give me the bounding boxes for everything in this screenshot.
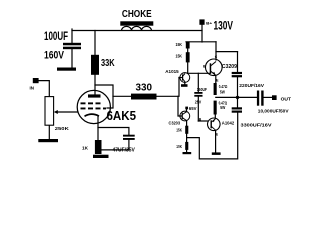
terminal B+ square bbox=[199, 19, 204, 24]
wire step to cap column bbox=[216, 51, 238, 53]
svg-text:5W: 5W bbox=[220, 105, 226, 110]
wire 047b to A1042 emitter bbox=[214, 115, 216, 119]
wire top bias bar bbox=[186, 41, 216, 43]
wire 15K-10K junction bbox=[186, 134, 188, 142]
ground below pot bbox=[38, 139, 58, 142]
resistor 1K cathode bbox=[95, 140, 102, 154]
wire pot to ground bbox=[48, 125, 50, 139]
wire 33K column bbox=[94, 31, 96, 95]
wire plate to 330 bbox=[113, 95, 131, 97]
wire A1015 bottom lead bbox=[184, 82, 186, 84]
svg-text:6AK5: 6AK5 bbox=[107, 108, 137, 123]
svg-text:3300UF/16V: 3300UF/16V bbox=[241, 123, 273, 129]
terminal IN square bbox=[33, 78, 39, 83]
potentiometer 250K body bbox=[45, 97, 54, 126]
wire 150UF column bottom bbox=[197, 97, 199, 121]
ground below 100UF bbox=[57, 68, 76, 71]
wire pot wiper bbox=[57, 111, 78, 113]
svg-text:CHOKE: CHOKE bbox=[122, 8, 152, 20]
ground below A1042 bbox=[212, 152, 221, 155]
svg-text:150UF: 150UF bbox=[197, 87, 207, 92]
terminal OUT square bbox=[272, 95, 277, 100]
wire output node row bbox=[216, 96, 257, 98]
svg-text:1K: 1K bbox=[82, 146, 89, 152]
svg-text:15K: 15K bbox=[176, 54, 183, 59]
svg-text:15K: 15K bbox=[176, 42, 183, 47]
capacitor 100UF plates bbox=[63, 43, 81, 49]
wire A1042 base lead bbox=[198, 120, 207, 122]
wire input to pot bbox=[39, 81, 50, 97]
wire C3209 emitter stem bbox=[215, 76, 217, 84]
svg-text:330: 330 bbox=[136, 81, 153, 93]
potentiometer wiper arrow bbox=[54, 110, 58, 114]
svg-text:IN: IN bbox=[30, 85, 35, 90]
svg-text:10K: 10K bbox=[176, 144, 182, 149]
wire C3203 emitter stem bbox=[186, 121, 188, 126]
tube 6AK5 envelope bbox=[77, 90, 110, 123]
svg-text:130V: 130V bbox=[214, 21, 234, 33]
svg-text:33K: 33K bbox=[101, 57, 115, 69]
wire collector column C3209 bbox=[215, 42, 217, 60]
resistor 15K lower bbox=[186, 52, 190, 62]
ground below 10K bbox=[183, 152, 192, 154]
tube grid row 1 bbox=[81, 102, 101, 104]
resistor 10K bbox=[185, 142, 188, 150]
capacitor 150UF plates bbox=[194, 92, 202, 97]
wire 100UF bottom stem bbox=[71, 49, 73, 68]
resistor 330 bbox=[131, 94, 157, 100]
wire A1015 base lead bbox=[179, 77, 182, 79]
wire out cap to terminal bbox=[264, 96, 272, 98]
junction output node bbox=[236, 96, 239, 99]
svg-text:100UF: 100UF bbox=[44, 31, 68, 43]
svg-text:OUT: OUT bbox=[281, 97, 291, 103]
capacitor 10000UF output plates bbox=[257, 91, 264, 106]
svg-text:250K: 250K bbox=[55, 126, 70, 132]
wire 15K bottom to base node bbox=[188, 62, 210, 73]
inductor choke coil bbox=[122, 26, 152, 30]
wire bypass cap return bbox=[102, 140, 129, 150]
svg-text:25V: 25V bbox=[195, 100, 202, 105]
svg-text:160V: 160V bbox=[44, 49, 65, 61]
svg-text:B+: B+ bbox=[206, 21, 213, 25]
svg-text:C3209: C3209 bbox=[222, 64, 237, 70]
wire A1042 collector to ground bbox=[215, 130, 217, 152]
svg-text:10,000UF/50V: 10,000UF/50V bbox=[258, 108, 290, 113]
transistor C3203 bbox=[180, 111, 190, 121]
capacitor 220UF plates bbox=[232, 72, 242, 77]
transistor A1042 bbox=[208, 118, 221, 131]
capacitor 47UF/35V plates bbox=[123, 135, 135, 140]
resistor 0.47 upper bbox=[214, 83, 217, 95]
wire grid node to C3203 bbox=[178, 96, 182, 116]
svg-text:220UF/16V: 220UF/16V bbox=[239, 83, 265, 89]
wire B+ rail bbox=[72, 30, 202, 32]
wire cathode lead bbox=[97, 116, 99, 140]
wire 330 to grid node bbox=[157, 95, 179, 97]
svg-text:A1015: A1015 bbox=[165, 69, 179, 74]
resistor 15K upper bbox=[186, 42, 190, 49]
wire 10K to ground bbox=[186, 150, 188, 152]
svg-text:65V: 65V bbox=[189, 106, 197, 111]
svg-text:5W: 5W bbox=[220, 89, 226, 94]
svg-text:A1042: A1042 bbox=[222, 120, 235, 125]
tube plate bar bbox=[88, 94, 101, 97]
transistor C3209 bbox=[206, 59, 223, 76]
tube cathode bar bbox=[85, 114, 100, 116]
resistor 33K bbox=[91, 55, 99, 75]
wire between 15K resistors bbox=[187, 49, 189, 53]
svg-text:15K: 15K bbox=[176, 127, 182, 132]
wire cap column mid bbox=[237, 77, 239, 107]
wire bottom rail bbox=[187, 113, 238, 159]
wire 150UF column top bbox=[197, 73, 199, 92]
resistor 0.47 lower bbox=[214, 101, 217, 115]
capacitor 3300UF plates bbox=[232, 107, 242, 112]
wire screen box top bbox=[95, 85, 113, 108]
tube grid row 2 bbox=[81, 108, 107, 110]
transistor A1015 bbox=[180, 73, 190, 83]
wire C3203 collector stem bbox=[186, 109, 188, 112]
resistor 15K emitter bbox=[185, 126, 188, 134]
node 65V marker bbox=[185, 107, 188, 110]
wire A1015 base drop bbox=[178, 78, 180, 97]
ground below 1K bbox=[93, 155, 109, 158]
wire cap column upper bbox=[237, 52, 239, 72]
ground bar below A1015 bbox=[181, 84, 188, 87]
svg-text:C3203: C3203 bbox=[169, 121, 181, 126]
wire B+ terminal stem bbox=[201, 25, 203, 42]
svg-text:47UF/35V: 47UF/35V bbox=[113, 147, 136, 153]
wire 100UF top stem bbox=[71, 29, 73, 43]
wire cathode bypass branch bbox=[98, 128, 129, 135]
choke core bar bbox=[120, 21, 153, 25]
